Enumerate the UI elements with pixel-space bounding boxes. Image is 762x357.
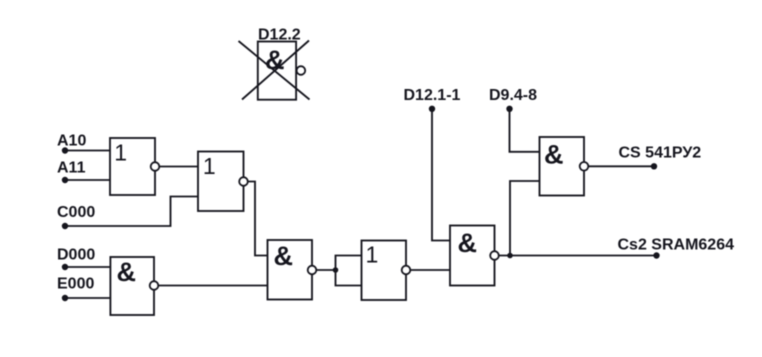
wire U6 out to Cs2 output bbox=[499, 255, 657, 257]
cross-out line 2 bbox=[242, 41, 309, 100]
svg-text:A11: A11 bbox=[57, 160, 86, 177]
gate U5 body bbox=[362, 241, 407, 301]
svg-text:1: 1 bbox=[203, 153, 216, 179]
node C000 bbox=[62, 223, 68, 229]
svg-text:C000: C000 bbox=[57, 204, 95, 221]
gate U2 output bubble bbox=[239, 177, 248, 186]
gate D12.2 body bbox=[258, 42, 296, 100]
gate U2 body bbox=[198, 152, 244, 212]
wire U5 out to U6 bbox=[410, 269, 450, 271]
wire E000 to U3 bbox=[65, 297, 110, 299]
svg-text:Cs2 SRAM6264: Cs2 SRAM6264 bbox=[618, 237, 735, 254]
wire D000 to U3 bbox=[65, 266, 110, 268]
svg-text:A10: A10 bbox=[57, 133, 86, 150]
wire C000 to U2 bbox=[65, 197, 198, 227]
gate D12.2 output bubble bbox=[297, 66, 306, 75]
svg-text:1: 1 bbox=[366, 242, 379, 268]
gate U6 output bubble bbox=[490, 251, 499, 260]
wire U7 out to CS output bbox=[588, 165, 654, 167]
gate U1 output bubble bbox=[151, 162, 160, 171]
gate U7 body bbox=[540, 137, 585, 196]
wire U4 out to junction bbox=[316, 269, 335, 271]
svg-text:&: & bbox=[458, 228, 478, 258]
cross-out line 1 bbox=[239, 41, 310, 100]
svg-text:CS 541РУ2: CS 541РУ2 bbox=[619, 145, 702, 162]
gate U4 body bbox=[268, 240, 313, 300]
gate U4 output bubble bbox=[308, 266, 317, 275]
wire A10 to U1 bbox=[65, 150, 110, 152]
gate U7 output bubble bbox=[580, 162, 589, 171]
svg-text:1: 1 bbox=[114, 140, 127, 166]
node D000 bbox=[62, 264, 68, 270]
wire J1 split to U5 inputs bbox=[336, 256, 362, 286]
svg-text:D9.4-8: D9.4-8 bbox=[489, 87, 537, 104]
junction J2 bbox=[507, 253, 513, 259]
node D9.4-8 bbox=[506, 106, 512, 112]
gate U3 output bubble bbox=[150, 281, 159, 290]
svg-text:E000: E000 bbox=[57, 276, 94, 293]
wire A11 to U1 bbox=[65, 179, 110, 181]
wire U2 out to U4 bbox=[248, 182, 268, 256]
wire D9.4-8 to U7 bbox=[510, 109, 540, 152]
gate U3 body bbox=[110, 257, 154, 315]
svg-text:&: & bbox=[274, 241, 294, 271]
svg-text:D12.1-1: D12.1-1 bbox=[404, 87, 461, 104]
node D12.1-1 bbox=[429, 106, 435, 112]
gate U5 output bubble bbox=[402, 266, 411, 275]
svg-text:D000: D000 bbox=[57, 247, 95, 264]
wire U1 out to U2 bbox=[159, 166, 198, 168]
node A11 bbox=[62, 177, 68, 183]
node Cs2 SRAM6264 bbox=[653, 252, 659, 258]
svg-text:&: & bbox=[117, 257, 137, 287]
gate U6 body bbox=[450, 226, 495, 286]
svg-text:&: & bbox=[544, 140, 564, 170]
wire D12.1-1 to U6 bbox=[432, 109, 450, 241]
node CS 541PY2 bbox=[651, 163, 657, 169]
node E000 bbox=[62, 295, 68, 301]
gate U1 body bbox=[110, 138, 155, 195]
wire U3 out to U4 bbox=[158, 285, 267, 287]
junction J1 bbox=[333, 267, 339, 273]
wire J2 up to U7 bbox=[510, 181, 540, 256]
node A10 bbox=[62, 147, 68, 153]
